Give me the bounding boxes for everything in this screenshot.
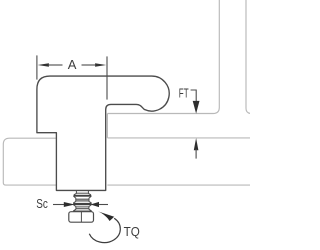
- wall 2 left edge with corner: [246, 0, 252, 114]
- svg-text:TQ: TQ: [124, 224, 140, 239]
- fixture plate right section bottom line: [107, 184, 250, 186]
- dimension A right arrow: [95, 63, 106, 66]
- FT down arrow: [193, 101, 200, 114]
- TQ torque arc: [89, 218, 120, 242]
- FT leader elbow: [191, 90, 197, 102]
- screw thread thin line d: [76, 206, 89, 208]
- screw stud profile: [73, 191, 91, 212]
- Sc left arrow: [53, 204, 64, 206]
- svg-text:FT: FT: [179, 85, 189, 100]
- screw thread band 1: [74, 195, 91, 197]
- svg-text:A: A: [68, 57, 77, 72]
- dimension A left extension line: [36, 55, 38, 79]
- dimension A right extension line: [106, 56, 108, 99]
- screw collar above nut: [74, 210, 92, 212]
- screw thread thin line c: [76, 200, 89, 202]
- fixture plate left section (light outline): [3, 138, 56, 185]
- svg-text:Sc: Sc: [36, 196, 48, 211]
- dimension A left arrow: [38, 63, 49, 66]
- Sc right arrow: [90, 202, 99, 207]
- wall 1 bottom edge and right edge: [107, 0, 219, 114]
- FT up arrow: [194, 138, 199, 150]
- fixture plate right section top line: [107, 137, 250, 139]
- clamp body outline: [37, 76, 169, 190]
- TQ arrowhead: [98, 211, 114, 221]
- screw thread thin line e: [76, 208, 89, 210]
- screw thread thin line a: [76, 192, 88, 194]
- workpiece slab left edge: [106, 114, 108, 138]
- hex nut: [69, 212, 94, 223]
- screw thread thin line b: [76, 198, 89, 200]
- screw thread band 2: [74, 203, 92, 205]
